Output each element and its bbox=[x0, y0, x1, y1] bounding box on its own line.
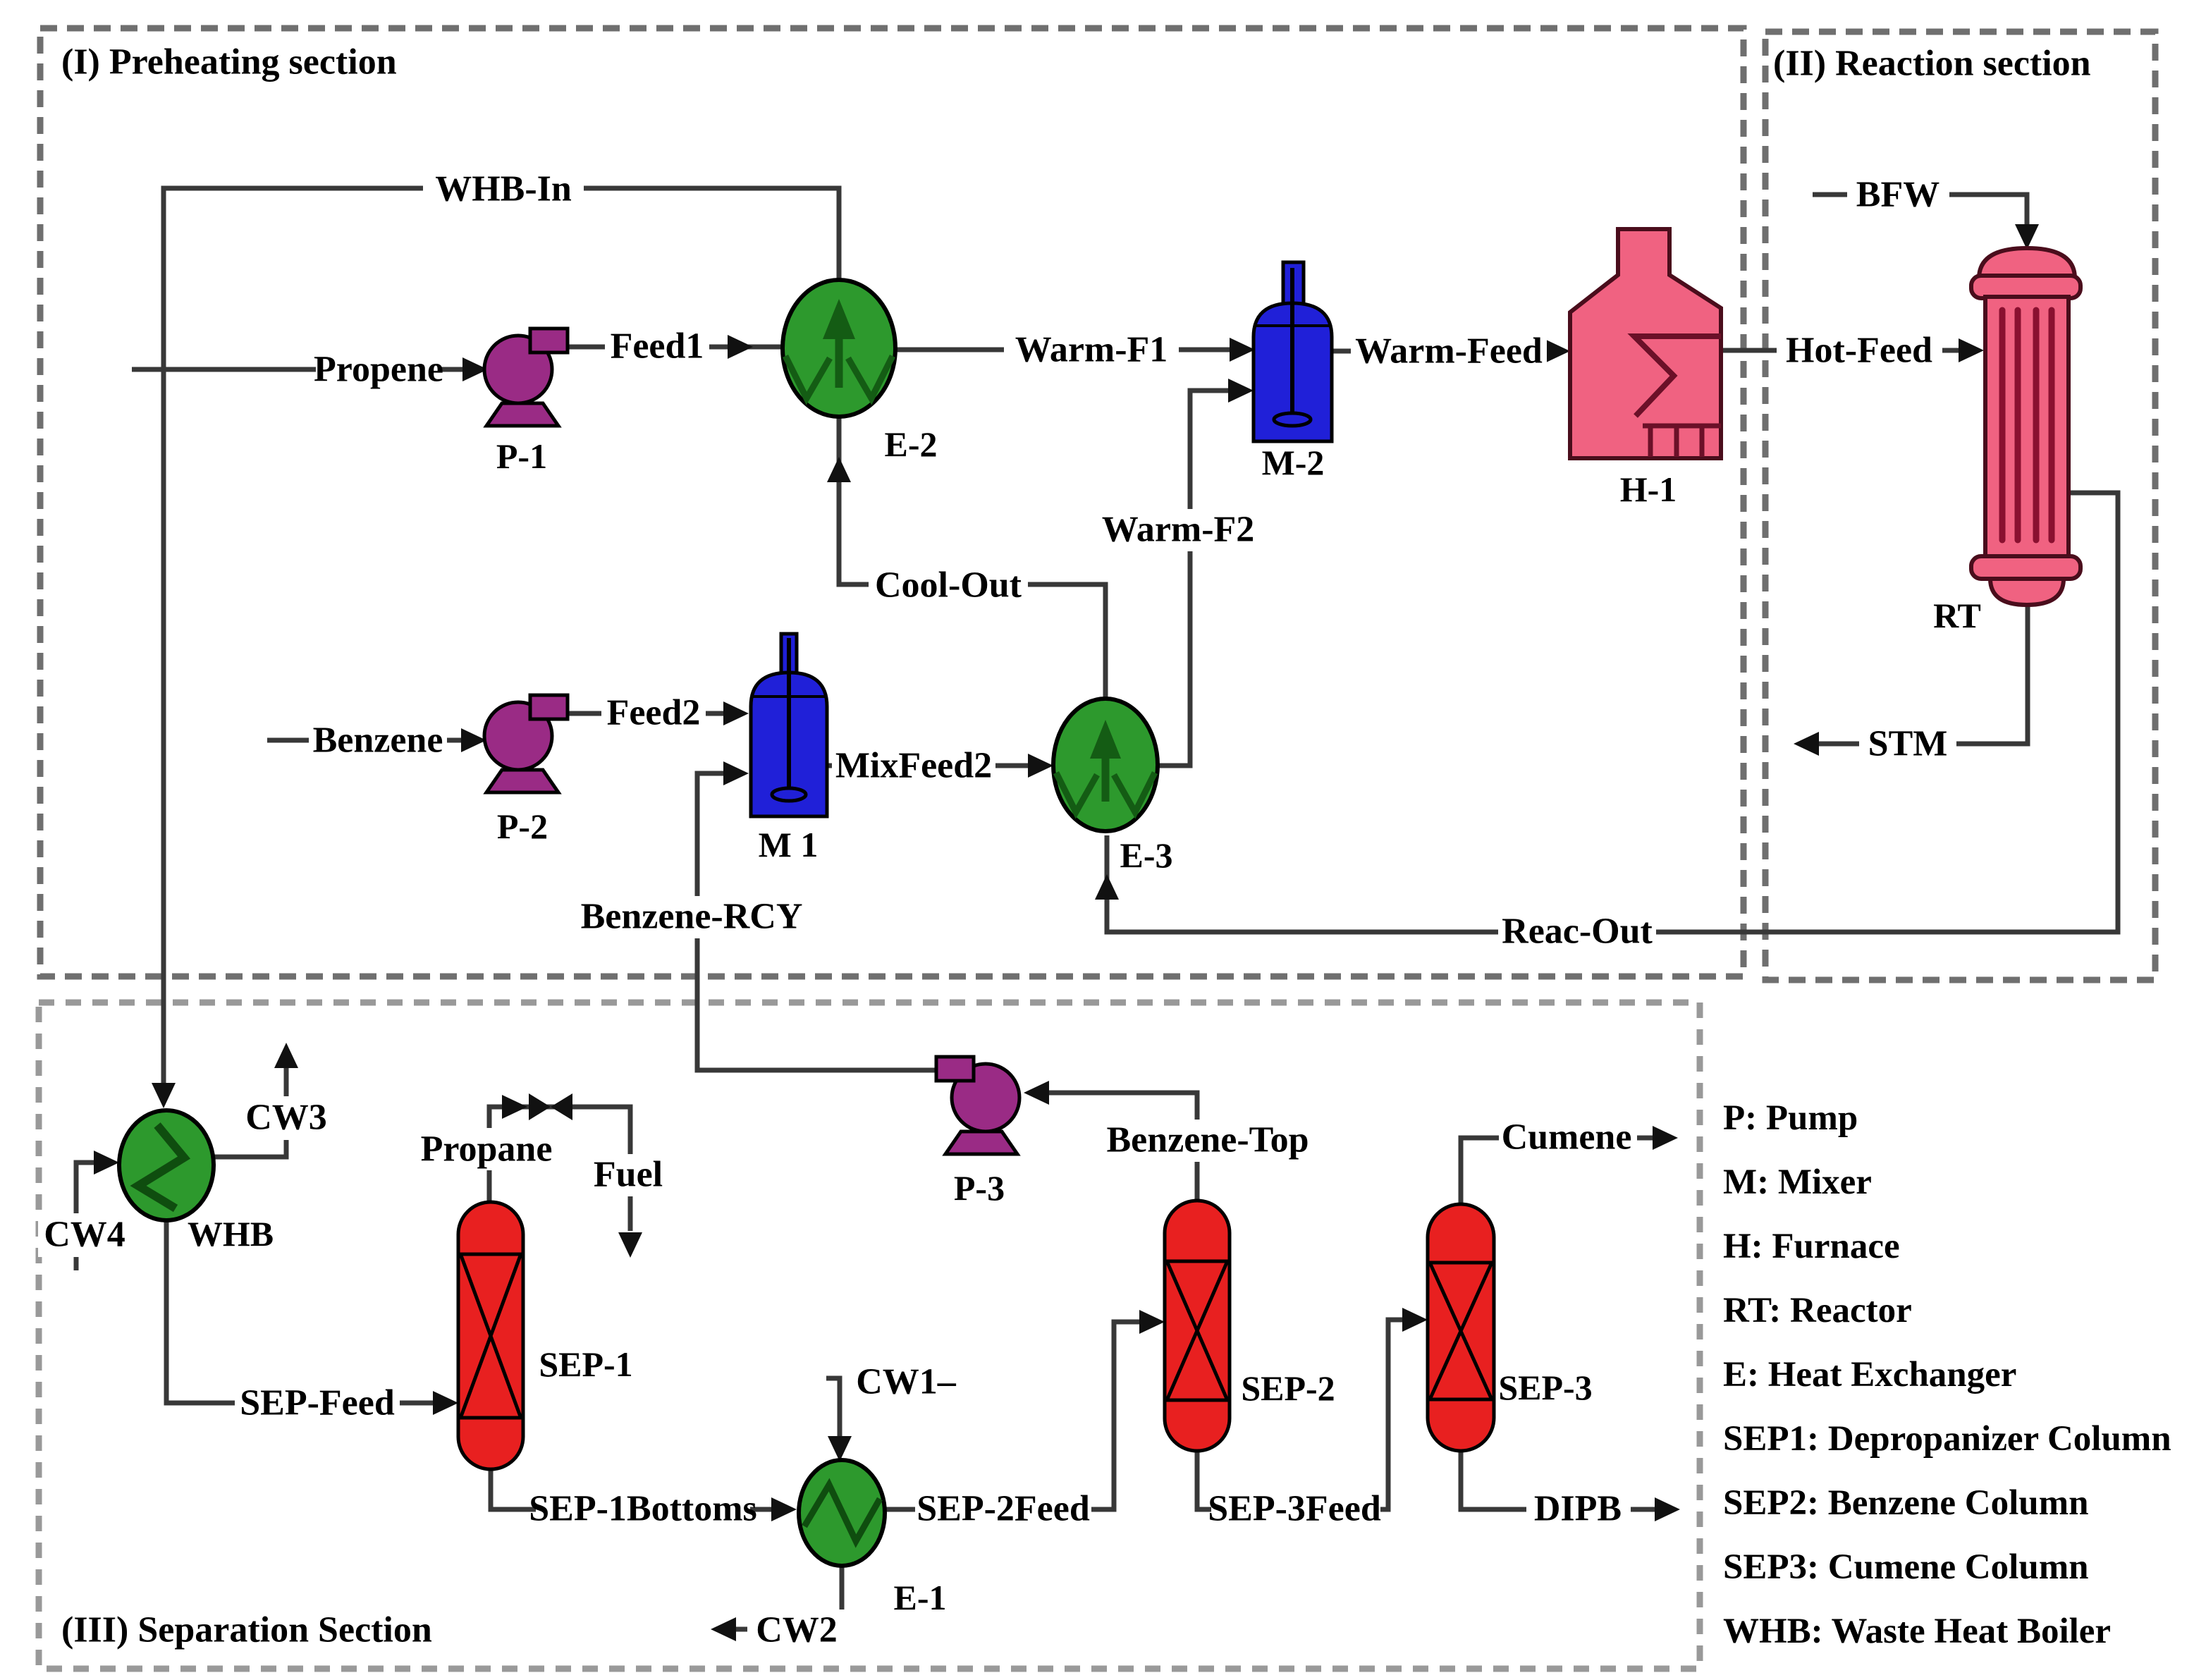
node SEP-1Bottoms label bbox=[536, 1489, 750, 1530]
section II border (Reaction section dashed box) bbox=[1765, 32, 2155, 980]
svg-text:RT: RT bbox=[1933, 596, 1981, 635]
svg-text:P-1: P-1 bbox=[496, 436, 547, 476]
svg-text:RT: Reactor: RT: Reactor bbox=[1723, 1291, 1912, 1330]
wire CW3 out of WHB bbox=[214, 1068, 286, 1157]
wire Propene inlet bbox=[132, 367, 462, 372]
node SEP-3Feed label bbox=[1211, 1489, 1380, 1530]
svg-text:(I) Preheating section: (I) Preheating section bbox=[61, 42, 397, 82]
section III border (Separation section dashed box) bbox=[39, 1003, 1700, 1669]
svg-text:Fuel: Fuel bbox=[594, 1155, 663, 1195]
wire SEP-2Feed: E-1 to SEP-2 bbox=[885, 1322, 1139, 1509]
svg-text:Benzene-RCY: Benzene-RCY bbox=[581, 897, 803, 937]
svg-text:SEP-1Bottoms: SEP-1Bottoms bbox=[529, 1489, 757, 1529]
svg-text:STM: STM bbox=[1868, 724, 1948, 764]
column SEP-1 bbox=[458, 1202, 523, 1469]
wire Cool-Out: E-3 top to E-2 bottom bbox=[839, 417, 1105, 699]
wire STM from RT bottom bbox=[1819, 605, 2028, 744]
svg-text:Hot-Feed: Hot-Feed bbox=[1786, 331, 1932, 371]
wire CW2 out of E-1 bbox=[736, 1566, 842, 1629]
pump P-1 bbox=[484, 329, 568, 426]
wire CW1 into E-1 bbox=[826, 1378, 840, 1436]
node Hot-Feed label bbox=[1777, 329, 1942, 372]
pump P-2 bbox=[484, 695, 568, 792]
svg-text:P: Pump: P: Pump bbox=[1723, 1098, 1858, 1138]
node CW3 label bbox=[240, 1096, 333, 1140]
wire Warm-F1: E-2 to M-2 bbox=[895, 348, 1230, 352]
svg-text:CW2: CW2 bbox=[756, 1610, 838, 1650]
svg-text:SEP-3: SEP-3 bbox=[1498, 1368, 1592, 1407]
mixer M-1 bbox=[751, 634, 827, 816]
node WHB-In label bbox=[423, 168, 584, 210]
node Benzene-RCY label bbox=[601, 896, 783, 938]
svg-text:(II) Reaction section: (II) Reaction section bbox=[1773, 44, 2091, 84]
node Warm-F2 label bbox=[1089, 509, 1267, 551]
svg-text:E: Heat Exchanger: E: Heat Exchanger bbox=[1723, 1355, 2016, 1394]
svg-text:H: Furnace: H: Furnace bbox=[1723, 1227, 1900, 1266]
svg-text:E-1: E-1 bbox=[894, 1578, 947, 1617]
svg-text:SEP-2: SEP-2 bbox=[1241, 1368, 1335, 1408]
node STM label bbox=[1859, 723, 1956, 766]
svg-text:WHB: Waste Heat Boiler: WHB: Waste Heat Boiler bbox=[1723, 1612, 2111, 1651]
wire Propane from SEP-1 top to Fuel bbox=[489, 1107, 630, 1231]
wire WHB-In: E-2 top to WHB bbox=[164, 188, 839, 1084]
svg-text:SEP-2Feed: SEP-2Feed bbox=[917, 1489, 1090, 1529]
wire MixFeed2: M-1 to E-3 bbox=[827, 764, 1028, 768]
wire SEP-1Bottoms: SEP-1 to E-1 bbox=[491, 1469, 771, 1509]
node SEP-Feed label bbox=[235, 1382, 400, 1425]
node Benzene label bbox=[309, 720, 447, 761]
wire BFW into RT top bbox=[1813, 195, 2027, 224]
svg-text:Cool-Out: Cool-Out bbox=[875, 565, 1022, 606]
svg-text:Warm-Feed: Warm-Feed bbox=[1355, 331, 1543, 372]
node Propene label bbox=[316, 348, 441, 389]
svg-text:Reac-Out: Reac-Out bbox=[1502, 912, 1653, 952]
column SEP-2 bbox=[1165, 1201, 1230, 1451]
wire SEP-Feed: WHB to SEP-1 bbox=[166, 1220, 433, 1403]
svg-text:P-3: P-3 bbox=[954, 1168, 1005, 1208]
node Fuel label bbox=[588, 1154, 670, 1196]
svg-text:M 1: M 1 bbox=[759, 825, 819, 864]
svg-text:SEP-Feed: SEP-Feed bbox=[240, 1383, 395, 1423]
node Reac-Out label bbox=[1498, 911, 1656, 953]
valve on Propane line bbox=[529, 1093, 551, 1120]
svg-text:Benzene: Benzene bbox=[313, 721, 443, 761]
wire Benzene-Top: SEP-2 top to P-3 bbox=[1049, 1093, 1197, 1201]
svg-text:CW1–: CW1– bbox=[856, 1362, 957, 1402]
pump P-3 bbox=[936, 1057, 1019, 1154]
wire Benzene-RCY: P-3 to M-1 lower inlet bbox=[697, 773, 939, 1070]
node CW4 label bbox=[38, 1213, 131, 1257]
heat exchanger E-3 bbox=[1053, 699, 1158, 831]
svg-text:SEP1: Depropanizer Column: SEP1: Depropanizer Column bbox=[1723, 1419, 2171, 1459]
mixer M-2 bbox=[1254, 262, 1332, 441]
wire Feed2: P-2 to M-1 bbox=[568, 711, 723, 716]
wire Hot-Feed: H-1 to RT bbox=[1721, 348, 1959, 353]
svg-text:Feed2: Feed2 bbox=[607, 693, 701, 733]
svg-text:(III) Separation Section: (III) Separation Section bbox=[61, 1610, 432, 1650]
node Propane label bbox=[417, 1128, 556, 1170]
svg-text:M: Mixer: M: Mixer bbox=[1723, 1163, 1872, 1202]
node Warm-F1 label bbox=[1004, 329, 1179, 371]
svg-text:MixFeed2: MixFeed2 bbox=[835, 746, 992, 786]
wire Warm-F2: E-3 to M-2 lower inlet bbox=[1158, 391, 1228, 766]
svg-text:Cumene: Cumene bbox=[1502, 1117, 1632, 1158]
svg-text:Warm-F1: Warm-F1 bbox=[1015, 330, 1168, 370]
node SEP-2Feed label bbox=[915, 1489, 1091, 1530]
section I border (Preheating section dashed box) bbox=[40, 28, 1744, 976]
svg-text:E-2: E-2 bbox=[885, 424, 938, 464]
svg-text:Propene: Propene bbox=[314, 350, 443, 390]
wire DIPB out of SEP-3 bottom bbox=[1461, 1451, 1655, 1509]
svg-text:WHB: WHB bbox=[188, 1214, 274, 1253]
wire Feed1: P-1 to E-2 bbox=[568, 345, 784, 350]
node CW2 label bbox=[747, 1610, 846, 1650]
svg-text:CW4: CW4 bbox=[44, 1215, 125, 1255]
column SEP-3 bbox=[1428, 1204, 1494, 1451]
svg-text:M-2: M-2 bbox=[1262, 443, 1325, 482]
wire Reac-Out: RT to E-3 bottom bbox=[1107, 493, 2118, 932]
svg-text:SEP2: Benzene Column: SEP2: Benzene Column bbox=[1723, 1483, 2089, 1523]
node Feed2 label bbox=[601, 693, 706, 734]
svg-text:SEP3: Cumene Column: SEP3: Cumene Column bbox=[1723, 1547, 2089, 1587]
svg-text:WHB-In: WHB-In bbox=[435, 169, 572, 209]
node Feed1 label bbox=[605, 326, 709, 366]
svg-text:Feed1: Feed1 bbox=[611, 326, 704, 367]
wire Cumene out of SEP-3 top bbox=[1461, 1138, 1653, 1204]
svg-text:BFW: BFW bbox=[1856, 175, 1940, 215]
svg-text:H-1: H-1 bbox=[1620, 470, 1677, 509]
heat exchanger E-1 bbox=[799, 1460, 885, 1566]
wire Benzene inlet bbox=[267, 738, 461, 743]
node Warm-Feed label bbox=[1351, 330, 1547, 372]
wire Warm-Feed: M-2 to H-1 bbox=[1332, 349, 1545, 354]
svg-text:P-2: P-2 bbox=[497, 807, 548, 846]
node Cool-Out label bbox=[869, 564, 1028, 608]
node BFW label bbox=[1847, 173, 1949, 216]
node Benzene-Top label bbox=[1101, 1120, 1314, 1162]
svg-text:SEP-1: SEP-1 bbox=[539, 1344, 632, 1384]
svg-text:DIPB: DIPB bbox=[1534, 1489, 1622, 1529]
furnace H-1 bbox=[1570, 229, 1721, 458]
reactor RT bbox=[1971, 248, 2081, 605]
wire SEP-3Feed: SEP-2 bottom to SEP-3 bbox=[1197, 1320, 1402, 1509]
wire CW4 into WHB bbox=[76, 1163, 94, 1270]
node MixFeed2 label bbox=[832, 744, 995, 788]
svg-text:SEP-3Feed: SEP-3Feed bbox=[1208, 1489, 1381, 1529]
svg-text:Warm-F2: Warm-F2 bbox=[1102, 510, 1255, 550]
svg-text:E-3: E-3 bbox=[1120, 835, 1173, 875]
svg-text:Propane: Propane bbox=[421, 1129, 553, 1170]
svg-text:Benzene-Top: Benzene-Top bbox=[1107, 1120, 1309, 1160]
node Cumene label bbox=[1499, 1117, 1637, 1158]
svg-text:CW3: CW3 bbox=[245, 1098, 327, 1138]
waste heat boiler WHB bbox=[119, 1110, 214, 1220]
node DIPB label bbox=[1526, 1489, 1631, 1530]
heat exchanger E-2 bbox=[783, 280, 895, 417]
